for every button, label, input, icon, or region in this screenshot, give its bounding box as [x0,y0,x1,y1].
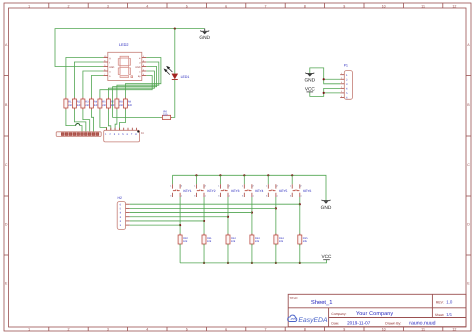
wire R7 to U1 pin2 [108,110,110,131]
svg-text:3: 3 [107,4,109,8]
wire rail to KEY4 pin1 [243,175,245,184]
wire rail to KEY1 pin1 [172,175,174,184]
svg-text:220: 220 [163,113,168,116]
svg-text:6: 6 [104,68,105,71]
svg-text:3: 3 [170,194,171,197]
svg-text:GND: GND [304,77,315,83]
wire GND loop from LED2 pin to top GND rail [55,29,205,67]
svg-text:Sheet_1: Sheet_1 [311,299,333,306]
svg-text:2: 2 [277,185,278,188]
wire H2 pin 6 to KEY6 column [130,203,300,205]
pins of LED2 with pin numbers [103,57,108,59]
resistor R7 [106,98,110,110]
svg-text:KEY3: KEY3 [231,189,239,193]
svg-text:1: 1 [266,185,267,188]
pin numbers KEY5 [266,185,277,198]
resistor R11 [202,234,206,246]
junction node R13 on VCC rail [251,262,253,264]
junction node KEY6 column on H2 line 6 [299,203,301,205]
svg-text:4: 4 [277,194,278,197]
wire LED2 pin c to R7 [108,71,154,98]
svg-text:1/1: 1/1 [446,312,452,317]
wire KEY1 pin4 to R10 [179,197,181,235]
wire LED2 pin f to R2 [74,62,103,98]
svg-text:2: 2 [181,185,182,188]
svg-text:7: 7 [265,4,267,8]
wire VCC to P1 pin4 [310,88,340,96]
wire LED2 GND pin to R6 [113,67,162,118]
wire hop over [76,123,80,125]
svg-text:10k: 10k [207,240,212,243]
ground GND (P1) [305,73,314,77]
svg-text:rauno.nuud: rauno.nuud [409,321,435,327]
resistor R14 [274,234,278,246]
svg-text:LED2: LED2 [119,43,129,47]
junction node R15 on VCC rail [299,262,301,264]
resistor R8 [115,98,119,110]
wire KEY4 pin4 to R13 [251,197,253,235]
wire KEY6 pin4 to R15 [299,197,301,235]
svg-text:5: 5 [341,90,342,93]
junction node KEY4 top [243,174,245,176]
junction node KEY3 column on H2 line 3 [227,216,229,218]
ground GND (keypad) [322,200,331,204]
svg-text:EasyEDA: EasyEDA [298,317,328,324]
wire GND to P1 pin3 [310,68,340,84]
svg-text:2: 2 [205,185,206,188]
resistor R5 [98,98,102,110]
svg-text:10: 10 [382,4,386,8]
svg-text:GND: GND [135,66,140,69]
svg-text:3: 3 [104,64,105,67]
wire keypad GND rail [173,175,327,201]
logo EasyEDA [288,315,297,321]
connector U1 box [104,128,140,142]
svg-text:3: 3 [194,194,195,197]
pushbutton KEY5 [268,184,276,197]
wire GND to P1 pin2 [324,78,341,80]
svg-text:10k: 10k [183,240,188,243]
ground GND (top) [200,29,209,35]
pin numbers KEY1 [170,185,181,198]
svg-text:1: 1 [28,328,30,332]
resistor R3 [81,98,85,110]
svg-text:GND: GND [109,66,114,69]
wire R5 to U1 pin1 [100,110,107,131]
svg-text:10k: 10k [279,240,284,243]
junction node LED branch on GND rail [174,28,176,30]
pushbutton KEY1 [173,184,181,197]
wire R9 to U1 pin4 [119,110,125,131]
svg-text:Drawn By:: Drawn By: [385,321,401,325]
pushbutton KEY2 [196,184,204,197]
svg-text:2: 2 [68,4,70,8]
wire LED2 pin g to R1 [66,58,103,98]
svg-text:8: 8 [304,4,306,8]
junction node GND branch P1 [323,78,325,80]
svg-text:2: 2 [300,185,301,188]
wire R10 to VCC rail [179,244,181,263]
svg-text:8: 8 [304,328,306,332]
svg-text:3: 3 [266,194,267,197]
svg-text:3: 3 [290,194,291,197]
wire R11 to VCC rail [203,244,205,263]
wire KEY3 pin4 to R12 [227,197,229,235]
svg-text:6: 6 [225,328,227,332]
svg-text:D: D [5,223,8,227]
svg-text:11: 11 [421,328,425,332]
wire H2 pin 3 to KEY3 column [130,216,228,218]
pin numbers P1 (stub side) [341,72,342,98]
svg-text:Company:: Company: [331,312,346,316]
node mark U1 pin 8 [137,130,139,132]
wire R12 to VCC rail [227,244,229,263]
svg-text:5: 5 [186,4,188,8]
svg-text:9: 9 [343,4,345,8]
wire LED2 pin d to R8 [117,62,159,98]
svg-text:1: 1 [218,185,219,188]
svg-text:6: 6 [225,4,227,8]
svg-text:2: 2 [143,59,144,62]
pin numbers P1 [346,74,348,100]
svg-text:1: 1 [28,4,30,8]
svg-text:C: C [467,163,470,167]
resistor R1 [64,98,68,110]
svg-text:10: 10 [382,328,386,332]
svg-text:GND: GND [321,205,332,211]
connector P2 horizontal pin header [56,132,101,137]
svg-text:1: 1 [290,185,291,188]
svg-text:4: 4 [146,4,148,8]
svg-text:6: 6 [341,95,342,98]
resistor R6 [161,115,172,119]
svg-text:220: 220 [128,104,133,107]
svg-text:4: 4 [300,194,301,197]
wire VCC to P1 pin5 [324,92,341,94]
svg-text:8: 8 [143,64,144,67]
wire LED2 pin e to R9 [125,58,160,98]
svg-text:VCC: VCC [322,254,333,259]
svg-text:4: 4 [253,194,254,197]
svg-text:P1: P1 [344,64,348,68]
svg-text:4: 4 [205,194,206,197]
wire H2 pin 2 to KEY2 column [130,220,204,222]
connector P1 [340,71,352,100]
pin numbers KEY2 [194,185,205,198]
wire LED1 cathode to R6 [171,80,175,118]
junction node R12 on VCC rail [227,262,229,264]
svg-text:10k: 10k [231,240,236,243]
svg-text:KEY2: KEY2 [207,189,215,193]
svg-text:2: 2 [229,185,230,188]
svg-text:VCC: VCC [305,86,316,91]
wire LED2 pin b to R4 [91,76,103,98]
svg-text:2: 2 [341,77,342,80]
wire VCC rail [180,260,326,263]
junction node KEY2 column on H2 line 2 [203,220,205,222]
connector H2 [117,202,130,230]
svg-text:10k: 10k [255,240,260,243]
svg-text:4: 4 [181,194,182,197]
wire R3 to P2 pad8 [83,110,90,132]
svg-text:Sheet:: Sheet: [435,313,445,317]
svg-text:3: 3 [242,194,243,197]
svg-text:1: 1 [143,55,144,58]
pin numbers KEY6 [290,185,301,198]
svg-text:12: 12 [452,4,456,8]
wire LED2 pin a to R3 [83,71,103,98]
resistor R9 [123,98,127,110]
power VCC (P1) [307,91,314,93]
svg-text:9: 9 [343,328,345,332]
resistor R10 [178,234,182,246]
power VCC (keypad) [323,259,330,261]
pin numbers H2 [120,203,122,227]
junction node R14 on VCC rail [275,262,277,264]
wire rail to KEY3 pin1 [219,175,221,184]
svg-text:KEY1: KEY1 [183,189,191,193]
svg-text:KEY5: KEY5 [279,189,287,193]
svg-text:LED1: LED1 [181,75,190,79]
resistor R2 [72,98,76,110]
svg-text:REV:: REV: [436,301,444,305]
resistor R13 [250,234,254,246]
wire R4 to P2 pad9 [91,110,93,132]
wire H2 pin 1 to KEY1 column [130,224,180,226]
pushbutton KEY3 [220,184,228,197]
svg-text:10k: 10k [303,240,308,243]
svg-text:3: 3 [341,81,342,84]
svg-text:5: 5 [143,73,144,76]
svg-text:C: C [5,163,8,167]
resistor R4 [89,98,93,110]
title block [288,294,466,326]
svg-text:7: 7 [104,73,105,76]
wire GND rail to LED1 anode [174,29,176,74]
wire rail to KEY5 pin1 [267,175,269,184]
wire H2 pin 5 to KEY5 column [130,207,276,209]
wire KEY2 pin4 to R11 [203,197,205,235]
wire R2 to P2 pad7 [74,110,85,132]
wire R8 to U1 pin3 [115,110,117,131]
svg-text:2: 2 [253,185,254,188]
wire KEY5 pin4 to R14 [275,197,277,235]
junction node KEY5 column on H2 line 5 [275,207,277,209]
pushbutton KEY4 [244,184,252,197]
svg-text:1: 1 [341,72,342,75]
wire R1 to P2 pad6 (right of hop) [80,126,82,132]
resistor R12 [226,234,230,246]
junction node KEY6 top [291,174,293,176]
7-segment digit glyph [118,56,133,77]
junction node KEY2 top [195,174,197,176]
wire rail to KEY2 pin1 [195,175,197,184]
svg-text:1.0: 1.0 [446,300,453,305]
svg-text:H2: H2 [118,196,122,200]
junction node KEY1 column on H2 line 1 [179,224,181,226]
resistor R15 [298,234,302,246]
junction node R11 on VCC rail [203,262,205,264]
svg-text:7: 7 [265,328,267,332]
svg-text:KEY6: KEY6 [303,189,311,193]
svg-text:12: 12 [452,328,456,332]
svg-text:9: 9 [104,59,105,62]
7-segment display U LED2 body [108,52,142,80]
wire R1 to P2 pad6 (left of hop) [66,110,76,126]
junction node KEY5 top [267,174,269,176]
svg-text:2: 2 [68,328,70,332]
svg-text:KEY4: KEY4 [255,189,263,193]
svg-text:4: 4 [341,86,342,89]
wire R14 to VCC rail [275,244,277,263]
svg-text:2019-11-07: 2019-11-07 [347,320,371,325]
svg-text:Your Company: Your Company [356,311,393,317]
svg-text:1: 1 [194,185,195,188]
junction node KEY3 top [219,174,221,176]
svg-text:GND: GND [199,35,210,41]
wire rail to KEY6 pin1 [291,175,293,184]
pushbutton KEY6 [292,184,300,197]
svg-text:3: 3 [218,194,219,197]
svg-text:5: 5 [186,328,188,332]
svg-text:4: 4 [143,68,144,71]
svg-text:Date:: Date: [331,321,339,325]
pin numbers KEY3 [218,185,229,198]
pin numbers KEY4 [242,185,253,198]
svg-text:D: D [467,223,470,227]
svg-text:4: 4 [229,194,230,197]
svg-text:1: 1 [170,185,171,188]
wire R15 to VCC rail [299,244,301,263]
svg-text:3: 3 [107,328,109,332]
wire H2 pin 4 to KEY4 column [130,212,252,214]
wire R13 to VCC rail [251,244,253,263]
LED LED1 [164,67,178,80]
junction node KEY4 column on H2 line 4 [251,211,253,213]
wire LED2 pin dp to R5 [100,76,152,98]
svg-text:10: 10 [104,55,106,58]
junction node VCC branch P1 [323,92,325,94]
svg-text:11: 11 [421,4,425,8]
svg-text:1: 1 [242,185,243,188]
svg-text:4: 4 [146,328,148,332]
svg-text:TITLE:: TITLE: [289,296,298,300]
